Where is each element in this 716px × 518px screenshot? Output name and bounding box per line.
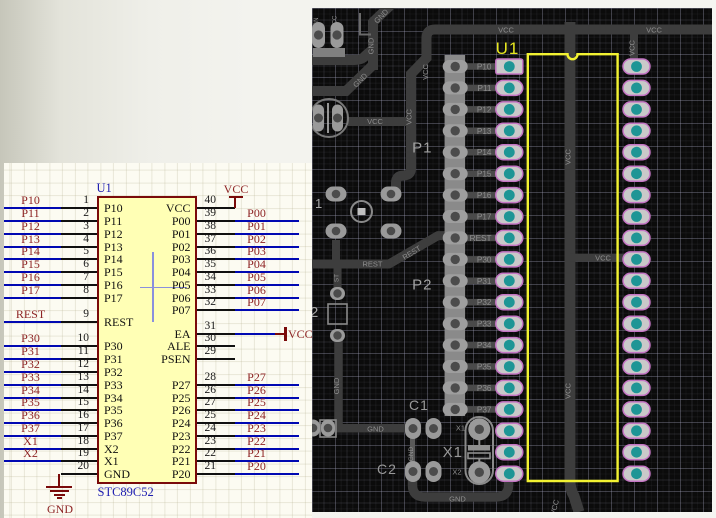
switch pad bottom-left bbox=[326, 224, 347, 239]
connect bar row P14 bbox=[455, 149, 510, 156]
pin name P36 (inside U1) bbox=[104, 417, 123, 429]
trace VCC top horizontal bbox=[396, 30, 712, 192]
pin name P07 (inside U1) bbox=[120, 304, 191, 316]
plated hole pin 30 bbox=[631, 275, 642, 286]
crystal pad 2 bbox=[468, 461, 490, 483]
header pad P32 bbox=[443, 296, 468, 309]
wire net P21 (right) bbox=[235, 460, 299, 462]
svg-text:P14: P14 bbox=[477, 148, 492, 157]
pin number 26 bbox=[205, 385, 245, 396]
U1 pad pin 17 (left) bbox=[496, 402, 523, 417]
pin name P17 (inside U1) bbox=[104, 292, 123, 304]
svg-text:1: 1 bbox=[315, 196, 322, 211]
plated hole pin 14 bbox=[504, 340, 515, 351]
crystal symbol stem bottom bbox=[478, 459, 480, 463]
wire net P13 (left) bbox=[4, 246, 61, 248]
U1 pad pin 11 (left) bbox=[496, 273, 523, 288]
trace GND bottom loop to X2 pad bbox=[413, 474, 509, 497]
wire net P03 (right) bbox=[235, 258, 299, 260]
R2 pad 1 bbox=[330, 287, 345, 300]
U1 pad pin 14 (left) bbox=[496, 338, 523, 353]
connect bar row P13 bbox=[455, 128, 510, 135]
pad top-left 1 bbox=[312, 22, 325, 48]
pin 4 of U1 bbox=[61, 246, 98, 248]
pin 25 of U1 bbox=[197, 422, 235, 424]
pin 21 of U1 bbox=[197, 473, 235, 475]
pin number 18 bbox=[49, 436, 89, 447]
pin number 34 bbox=[205, 272, 245, 283]
schematic sheet bbox=[4, 163, 312, 518]
header pad P33 bbox=[443, 317, 468, 330]
plated hole pin 40 bbox=[631, 61, 642, 72]
plated hole pin 19 bbox=[504, 447, 515, 458]
plated hole pin 13 bbox=[504, 318, 515, 329]
bottom-left pad 1 bbox=[306, 420, 320, 437]
wire net P20 (right) bbox=[235, 473, 299, 475]
net label P03 bbox=[230, 246, 283, 257]
pin 31 of U1 bbox=[197, 333, 235, 335]
trace GND C1 to C2 thin bbox=[410, 429, 415, 471]
connect bar row P32 bbox=[455, 299, 510, 306]
hole bbox=[475, 425, 484, 434]
svg-text:VCC: VCC bbox=[405, 109, 414, 125]
connect bar row P11 bbox=[455, 85, 510, 92]
plated hole pin 25 bbox=[631, 383, 642, 394]
svg-text:VCC: VCC bbox=[595, 254, 611, 263]
cap pad 1 bbox=[313, 105, 324, 132]
pad top-left 2 bbox=[331, 22, 344, 48]
pin number 33 bbox=[205, 285, 245, 296]
svg-text:C1: C1 bbox=[409, 397, 429, 413]
pin name P16 (inside U1) bbox=[104, 279, 123, 291]
wire net P11 (left) bbox=[4, 220, 61, 222]
switch circle outline bbox=[351, 201, 372, 222]
pin number 9 bbox=[49, 309, 89, 320]
svg-text:P33: P33 bbox=[477, 320, 492, 329]
hole bbox=[409, 424, 418, 433]
U1 pad pin 20 (left) bbox=[496, 466, 523, 481]
U1 pad pin 5 (left) bbox=[496, 145, 523, 160]
switch center square bbox=[358, 208, 366, 215]
svg-text:VCC: VCC bbox=[646, 26, 662, 35]
svg-text:P32: P32 bbox=[477, 298, 492, 307]
header pad hole bbox=[451, 190, 460, 199]
pin 3 of U1 bbox=[61, 233, 98, 235]
pin 22 of U1 bbox=[197, 460, 235, 462]
switch pad bottom-right bbox=[381, 224, 402, 239]
pin name P30 (inside U1) bbox=[104, 340, 123, 352]
pin number 7 bbox=[49, 272, 89, 283]
header pad P37 bbox=[443, 403, 468, 416]
connect bar row P12 bbox=[455, 106, 510, 113]
plated hole pin 29 bbox=[631, 297, 642, 308]
pin name X1 (inside U1) bbox=[104, 455, 119, 467]
pin 13 of U1 bbox=[61, 384, 98, 386]
trace GND top-left lower branch bbox=[312, 65, 373, 91]
pin number 4 bbox=[49, 234, 89, 245]
hole bbox=[314, 114, 323, 123]
pin 32 of U1 bbox=[197, 309, 235, 311]
pin number 29 bbox=[205, 346, 245, 357]
hole bbox=[333, 289, 341, 297]
net label P21 bbox=[230, 448, 283, 459]
header pad hole bbox=[451, 362, 460, 371]
ground symbol stem bbox=[58, 474, 60, 486]
plated hole pin 32 bbox=[631, 233, 642, 244]
pin name P24 (inside U1) bbox=[120, 417, 191, 429]
pin number 30 bbox=[205, 333, 245, 344]
hole bbox=[429, 424, 438, 433]
round component outline (cap) bbox=[310, 99, 348, 137]
hole bbox=[409, 467, 418, 476]
U1 pad pin 22 (right) bbox=[623, 445, 650, 460]
connect bar row P15 bbox=[455, 170, 510, 177]
thin trace top-left bbox=[360, 13, 371, 35]
U1 pad pin 36 (right) bbox=[623, 145, 650, 160]
net label P33 bbox=[4, 372, 57, 383]
net label P00 bbox=[230, 208, 283, 219]
pin name P12 (inside U1) bbox=[104, 228, 123, 240]
wire net P37 (left) bbox=[4, 435, 61, 437]
pin name ALE (inside U1) bbox=[120, 340, 191, 352]
power port VCC bar (EA) bbox=[284, 327, 286, 341]
pin number 5 bbox=[49, 246, 89, 257]
U1 pad pin 15 (left) bbox=[496, 359, 523, 374]
pin number 12 bbox=[49, 359, 89, 370]
header pad hole bbox=[451, 340, 460, 349]
header pad P36 bbox=[443, 381, 468, 394]
switch pad top-left bbox=[326, 187, 347, 202]
pin name P13 (inside U1) bbox=[104, 241, 123, 253]
wire net P32 (left) bbox=[4, 371, 61, 373]
svg-text:P17: P17 bbox=[477, 213, 492, 222]
hole bbox=[324, 424, 333, 433]
pin 27 of U1 bbox=[197, 409, 235, 411]
hole bbox=[332, 227, 341, 236]
svg-text:GND: GND bbox=[332, 377, 341, 394]
pin 17 of U1 bbox=[61, 435, 98, 437]
plated hole pin 23 bbox=[631, 425, 642, 436]
header pad hole bbox=[451, 298, 460, 307]
pin number 20 bbox=[49, 461, 89, 472]
svg-text:GND: GND bbox=[367, 37, 376, 54]
pin name P10 (inside U1) bbox=[104, 202, 123, 214]
svg-text:VCC: VCC bbox=[564, 149, 573, 165]
plated hole pin 20 bbox=[504, 468, 515, 479]
power port VCC stem (EA) bbox=[275, 333, 285, 335]
wire net P06 (right) bbox=[235, 297, 299, 299]
crystal symbol stem top bbox=[478, 440, 480, 445]
hole bbox=[332, 190, 341, 199]
pin 34 of U1 bbox=[197, 284, 235, 286]
wire EA to VCC bbox=[235, 333, 275, 335]
wire net P22 (right) bbox=[235, 448, 299, 450]
U1 pad pin 10 (left) bbox=[496, 252, 523, 267]
header pad P30 bbox=[443, 253, 468, 266]
wire net P23 (right) bbox=[235, 435, 299, 437]
pin 10 of U1 bbox=[61, 345, 98, 347]
net label P06 bbox=[230, 285, 283, 296]
pin name P26 (inside U1) bbox=[120, 404, 191, 416]
pin number 22 bbox=[205, 448, 245, 459]
net label P12 bbox=[4, 221, 57, 232]
header pad hole bbox=[451, 83, 460, 92]
U1 pad pin 38 (right) bbox=[623, 102, 650, 117]
header pad P14 bbox=[443, 146, 468, 159]
net label P36 bbox=[4, 410, 57, 421]
header pad P16 bbox=[443, 189, 468, 202]
crystal pad 1 bbox=[468, 418, 490, 440]
pin name P21 (inside U1) bbox=[120, 455, 191, 467]
pin 2 of U1 bbox=[61, 220, 98, 222]
pin number 23 bbox=[205, 436, 245, 447]
pin name GND (inside U1) bbox=[104, 468, 130, 480]
pin name P04 (inside U1) bbox=[120, 266, 191, 278]
U1 pad pin 34 (right) bbox=[623, 188, 650, 203]
net label P35 bbox=[4, 397, 57, 408]
pin name P25 (inside U1) bbox=[120, 392, 191, 404]
net label REST bbox=[4, 309, 57, 320]
pin number 32 bbox=[205, 297, 245, 308]
U1 pad pin 37 (right) bbox=[623, 123, 650, 138]
plated hole pin 8 bbox=[504, 211, 515, 222]
svg-text:VCC: VCC bbox=[498, 26, 514, 35]
connect bar row REST bbox=[455, 235, 510, 242]
pin name P27 (inside U1) bbox=[120, 379, 191, 391]
U1 pad pin 28 (right) bbox=[623, 316, 650, 331]
connect bar row P37 bbox=[455, 406, 510, 413]
U1 pad pin 1 (left) bbox=[496, 59, 523, 74]
ground symbol bar 4 bbox=[57, 497, 62, 499]
plated hole pin 1 bbox=[504, 61, 515, 72]
svg-text:P35: P35 bbox=[477, 363, 492, 372]
plated hole pin 10 bbox=[504, 254, 515, 265]
wire net P07 (right) bbox=[235, 309, 299, 311]
bar below top-left pads bbox=[313, 48, 345, 57]
trace VCC branch to cap bbox=[348, 117, 411, 126]
svg-text:P36: P36 bbox=[477, 384, 492, 393]
header pad hole bbox=[451, 105, 460, 114]
hole bbox=[332, 30, 341, 39]
pin number 24 bbox=[205, 423, 245, 434]
header pad P10 bbox=[443, 60, 468, 73]
svg-text:P11: P11 bbox=[478, 84, 492, 93]
header pad hole bbox=[451, 405, 460, 414]
connect bar row P31 bbox=[455, 278, 510, 285]
header pad hole bbox=[451, 233, 460, 242]
net label P10 bbox=[4, 195, 57, 206]
plated hole pin 31 bbox=[631, 254, 642, 265]
trace switch to REST bbox=[332, 240, 340, 260]
wire net X2 (left) bbox=[4, 460, 61, 462]
plated hole pin 35 bbox=[631, 168, 642, 179]
plated hole pin 18 bbox=[504, 425, 515, 436]
wire net P12 (left) bbox=[4, 233, 61, 235]
pin name P33 (inside U1) bbox=[104, 379, 123, 391]
net label P04 bbox=[230, 259, 283, 270]
pin 36 of U1 bbox=[197, 258, 235, 260]
hole bbox=[309, 424, 318, 433]
U1 pad pin 25 (right) bbox=[623, 380, 650, 395]
pin name REST (inside U1) bbox=[104, 316, 133, 328]
U1 pad pin 40 (right) bbox=[623, 59, 650, 74]
pin 1 of U1 bbox=[61, 207, 98, 209]
plated hole pin 39 bbox=[631, 83, 642, 94]
wire net P05 (right) bbox=[235, 284, 299, 286]
U1 pad pin 26 (right) bbox=[623, 359, 650, 374]
capacitor C1 pad 1 bbox=[405, 418, 421, 439]
pin 29 of U1 bbox=[197, 358, 235, 360]
header pad P11 bbox=[443, 81, 468, 94]
ground symbol bar 1 bbox=[46, 486, 72, 488]
wire net P27 (right) bbox=[235, 384, 299, 386]
pin 30 of U1 bbox=[197, 345, 235, 347]
wire net P25 (right) bbox=[235, 409, 299, 411]
plated hole pin 6 bbox=[504, 168, 515, 179]
svg-text:ST: ST bbox=[334, 274, 341, 282]
pin name P05 (inside U1) bbox=[120, 279, 191, 291]
pin 12 of U1 bbox=[61, 371, 98, 373]
wire net P10 (left) bbox=[4, 207, 61, 209]
pin number 25 bbox=[205, 410, 245, 421]
hole bbox=[333, 114, 342, 123]
svg-text:P31: P31 bbox=[477, 277, 492, 286]
pin number 39 bbox=[205, 208, 245, 219]
net label P27 bbox=[230, 372, 283, 383]
pin number 17 bbox=[49, 423, 89, 434]
U1 pad pin 39 (right) bbox=[623, 80, 650, 95]
wire net P04 (right) bbox=[235, 271, 299, 273]
pin 26 of U1 bbox=[197, 397, 235, 399]
pin 14 of U1 bbox=[61, 397, 98, 399]
svg-text:GND: GND bbox=[408, 446, 415, 461]
U1 pad pin 18 (left) bbox=[496, 423, 523, 438]
connect bar row P35 bbox=[455, 363, 510, 370]
pin number 11 bbox=[49, 346, 89, 357]
pin 16 of U1 bbox=[61, 422, 98, 424]
svg-text:P37: P37 bbox=[477, 405, 492, 414]
hole bbox=[333, 331, 341, 339]
net label P22 bbox=[230, 436, 283, 447]
U1 pad pin 32 (right) bbox=[623, 230, 650, 245]
power port VCC stem (pin 40) bbox=[234, 197, 236, 208]
header pad P13 bbox=[443, 124, 468, 137]
net label P16 bbox=[4, 272, 57, 283]
pin number 36 bbox=[205, 246, 245, 257]
connect bar row P10 bbox=[455, 63, 510, 70]
trace GND vertical top-left bbox=[368, 20, 378, 70]
U1 pad pin 24 (right) bbox=[623, 402, 650, 417]
pin 15 of U1 bbox=[61, 409, 98, 411]
pin number 38 bbox=[205, 221, 245, 232]
wire net P34 (left) bbox=[4, 397, 61, 399]
connect bar row P17 bbox=[455, 213, 510, 220]
connect bar row P33 bbox=[455, 320, 510, 327]
pin name P37 (inside U1) bbox=[104, 430, 123, 442]
pin 37 of U1 bbox=[197, 246, 235, 248]
pin 5 of U1 bbox=[61, 258, 98, 260]
U1 pad pin 4 (left) bbox=[496, 123, 523, 138]
pin name P15 (inside U1) bbox=[104, 266, 123, 278]
trace GND top-left upper branch bbox=[312, 2, 394, 60]
pin number 21 bbox=[205, 461, 245, 472]
wire net P26 (right) bbox=[235, 397, 299, 399]
connect bar row P36 bbox=[455, 385, 510, 392]
header pad hole bbox=[451, 255, 460, 264]
U1 pad pin 21 (right) bbox=[623, 466, 650, 481]
wire net P24 (right) bbox=[235, 422, 299, 424]
pin name P11 (inside U1) bbox=[104, 215, 122, 227]
ground symbol bar 2 bbox=[50, 490, 69, 492]
plated hole pin 21 bbox=[631, 468, 642, 479]
plated hole pin 33 bbox=[631, 211, 642, 222]
pin name P01 (inside U1) bbox=[120, 228, 191, 240]
pin 9 of U1 bbox=[61, 321, 98, 323]
plated hole pin 9 bbox=[504, 233, 515, 244]
hole bbox=[387, 190, 396, 199]
cursor crosshair vertical bbox=[152, 252, 154, 322]
pin 23 of U1 bbox=[197, 448, 235, 450]
header pad hole bbox=[451, 62, 460, 71]
svg-text:X1: X1 bbox=[456, 424, 465, 433]
cap pad 2 bbox=[332, 105, 343, 132]
pin name EA (inside U1) bbox=[120, 328, 191, 340]
pin 40 of U1 bbox=[197, 207, 235, 209]
svg-text:P10: P10 bbox=[477, 63, 492, 72]
wire net X1 (left) bbox=[4, 448, 61, 450]
svg-text:C2: C2 bbox=[377, 461, 397, 477]
pin name X2 (inside U1) bbox=[104, 443, 119, 455]
pin name P31 (inside U1) bbox=[104, 353, 123, 365]
pin 24 of U1 bbox=[197, 435, 235, 437]
pin 7 of U1 bbox=[61, 284, 98, 286]
pin name P34 (inside U1) bbox=[104, 392, 123, 404]
pin number 2 bbox=[49, 208, 89, 219]
pin name P32 (inside U1) bbox=[104, 366, 123, 378]
svg-text:P30: P30 bbox=[477, 255, 492, 264]
wire net P31 (left) bbox=[4, 358, 61, 360]
U1 pad pin 31 (right) bbox=[623, 252, 650, 267]
plated hole pin 27 bbox=[631, 340, 642, 351]
U1 pad pin 27 (right) bbox=[623, 338, 650, 353]
plated hole pin 5 bbox=[504, 147, 515, 158]
header pad hole bbox=[451, 148, 460, 157]
pin number 27 bbox=[205, 397, 245, 408]
U1 silkscreen outline (yellow, with pin-1 notch) bbox=[528, 54, 618, 481]
net label P01 bbox=[230, 221, 283, 232]
svg-text:VCC: VCC bbox=[564, 383, 573, 399]
pin name PSEN (inside U1) bbox=[120, 353, 191, 365]
header pad hole bbox=[451, 169, 460, 178]
connect bar row P30 bbox=[455, 256, 510, 263]
trace GND vertical from R2 bbox=[334, 340, 343, 428]
wire net P00 (right) bbox=[235, 220, 299, 222]
plated hole pin 4 bbox=[504, 125, 515, 136]
net label P23 bbox=[230, 423, 283, 434]
PCB layout panel bbox=[312, 8, 712, 512]
trace VCC stub to pin31 pad bbox=[570, 254, 634, 262]
wire net P36 (left) bbox=[4, 422, 61, 424]
pin number 10 bbox=[49, 333, 89, 344]
hole bbox=[387, 227, 396, 236]
pin number 40 bbox=[205, 195, 245, 206]
pin number 8 bbox=[49, 285, 89, 296]
header P1/P2 ladder strip bbox=[445, 55, 466, 416]
plated hole pin 28 bbox=[631, 318, 642, 329]
header pad hole bbox=[451, 276, 460, 285]
pin name P14 (inside U1) bbox=[104, 253, 123, 265]
U1 pad pin 19 (left) bbox=[496, 445, 523, 460]
